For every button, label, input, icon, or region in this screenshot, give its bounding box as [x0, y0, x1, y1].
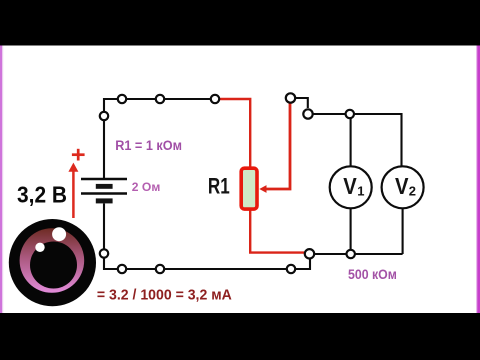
svg-text:V: V: [343, 173, 357, 199]
svg-text:V: V: [395, 173, 409, 199]
svg-text:500 кОм: 500 кОм: [348, 267, 397, 283]
svg-text:R1 = 1 кОм: R1 = 1 кОм: [115, 138, 182, 154]
svg-text:1: 1: [357, 183, 364, 198]
svg-text:2: 2: [409, 183, 416, 198]
svg-text:3,2 В: 3,2 В: [17, 181, 67, 207]
svg-text:= 3.2 / 1000 = 3,2 мА: = 3.2 / 1000 = 3,2 мА: [97, 286, 232, 303]
svg-text:R1: R1: [208, 173, 230, 198]
svg-text:2 Ом: 2 Ом: [132, 180, 161, 194]
